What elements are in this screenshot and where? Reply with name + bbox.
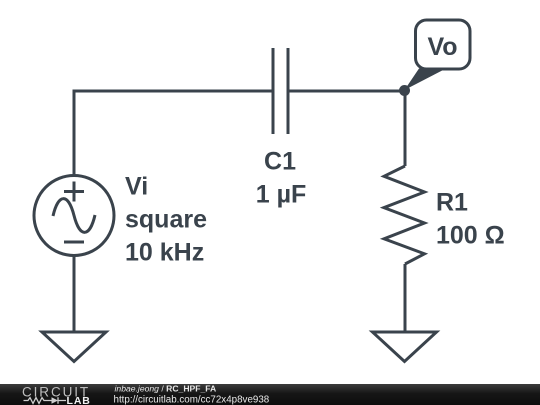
wire C1 right plate to node Vo [288, 90, 405, 93]
ground (right, under R1) [373, 332, 437, 362]
circuitlab logo [22, 385, 91, 405]
resistor R1 zigzag [384, 166, 425, 264]
wire V1 plus terminal to C1 left plate [74, 91, 273, 175]
svg-text:Vi: Vi [125, 173, 148, 201]
svg-text:inbae.jeong / RC_HPF_FA: inbae.jeong / RC_HPF_FA [115, 384, 217, 394]
svg-text:C1: C1 [264, 148, 296, 176]
svg-text:square: square [125, 206, 207, 234]
node Vo flag pointer [405, 69, 447, 91]
svg-text:10 kHz: 10 kHz [125, 239, 204, 267]
svg-text:LAB: LAB [67, 395, 91, 405]
svg-text:1 µF: 1 µF [256, 181, 307, 209]
capacitor C1 [273, 48, 288, 134]
wire R1 bottom to right ground [404, 264, 407, 332]
wire V1 minus terminal to left ground [73, 256, 76, 333]
node Vo flag box [416, 20, 471, 69]
wire node Vo to R1 top [404, 91, 407, 166]
svg-text:http://circuitlab.com/cc72x4p8: http://circuitlab.com/cc72x4p8ve938 [114, 395, 270, 405]
node Vo junction dot [399, 85, 410, 96]
svg-text:Vo: Vo [427, 33, 457, 61]
footer credit text [114, 384, 270, 405]
svg-text:R1: R1 [436, 189, 468, 217]
ground (left, under V1) [42, 332, 106, 362]
voltage source V1 (Vi, sine symbol with + and - marks) [34, 176, 114, 256]
svg-text:100 Ω: 100 Ω [436, 222, 505, 250]
